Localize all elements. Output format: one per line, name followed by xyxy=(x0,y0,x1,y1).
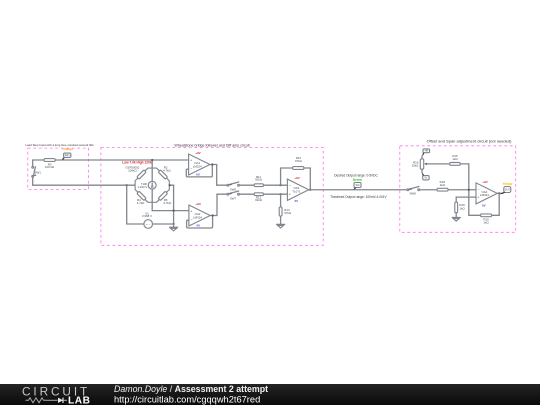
svg-text:+: + xyxy=(289,193,291,197)
resistor R19 xyxy=(481,214,492,225)
node junction V1 right xyxy=(173,223,175,225)
wire R13 feedback xyxy=(281,168,293,185)
svg-text:−: − xyxy=(289,184,291,188)
svg-text:LM324: LM324 xyxy=(480,193,489,197)
switch SW1 xyxy=(32,166,41,177)
svg-text:0V: 0V xyxy=(196,224,200,228)
svg-text:4.7kΩ: 4.7kΩ xyxy=(163,168,171,172)
node flag Orange xyxy=(62,147,73,160)
wheatstone bridge octagon xyxy=(135,168,169,202)
node junction OA1 out xyxy=(211,163,213,165)
svg-text:+9V: +9V xyxy=(482,180,487,184)
resistor R13 xyxy=(293,156,304,169)
svg-text:LM324: LM324 xyxy=(193,215,202,219)
wire SW1 to bottom rail xyxy=(32,177,34,185)
svg-text:Theorised Output range: 100mV-: Theorised Output range: 100mV-4.001V xyxy=(330,195,387,199)
resistor R4 (bridge) xyxy=(137,191,146,205)
svg-text:SW7: SW7 xyxy=(230,196,237,200)
wire row2 xyxy=(217,193,227,195)
wire row2 b xyxy=(239,193,254,195)
svg-text:1kΩ: 1kΩ xyxy=(483,221,489,225)
svg-text:10kΩ: 10kΩ xyxy=(412,164,420,168)
svg-text:SW6: SW6 xyxy=(230,187,237,191)
svg-text:LM324: LM324 xyxy=(193,164,202,168)
svg-text:+9V: +9V xyxy=(195,151,200,155)
potentiometer R16 xyxy=(412,156,450,173)
resistor R2 (bridge) xyxy=(158,166,171,180)
switch SW8 xyxy=(407,187,420,196)
node flag Green SIG xyxy=(353,178,362,190)
svg-text:Damon.Doyle / Assessment 2 att: Damon.Doyle / Assessment 2 attempt xyxy=(114,384,268,394)
logo resistor zigzag xyxy=(26,397,47,402)
op-amp OA3 xyxy=(287,176,308,203)
resistor R15 xyxy=(450,154,461,165)
svg-text:0V: 0V xyxy=(482,204,486,208)
wire bridge bottom to OA2 xyxy=(152,210,189,212)
svg-text:0V: 0V xyxy=(196,173,200,177)
node junction crossing xyxy=(173,210,175,212)
svg-text:+ −: + − xyxy=(146,222,151,226)
resistor R5 (bridge) xyxy=(158,191,172,205)
svg-text:−: − xyxy=(191,218,193,222)
op-amp OA4 xyxy=(476,180,497,208)
wire bottom rail xyxy=(33,184,135,186)
svg-text:Low 7.0k High 120k: Low 7.0k High 120k xyxy=(122,160,152,164)
svg-text:Load Step Input with a long ti: Load Step Input with a long time constan… xyxy=(25,143,94,147)
annotation box: Load Step block xyxy=(25,143,94,190)
svg-text:3.968 V: 3.968 V xyxy=(142,214,152,218)
wire OA1 feedback loop xyxy=(186,165,212,177)
svg-text:100kΩ: 100kΩ xyxy=(128,168,137,172)
svg-text:−: − xyxy=(190,167,192,171)
node flag +9v (pot top) xyxy=(422,149,430,156)
wire R18 to OA4 xyxy=(448,189,476,191)
resistor R20 xyxy=(455,202,466,213)
node junction inverting xyxy=(468,189,470,191)
svg-text:Orange: Orange xyxy=(62,147,73,151)
node junction OA3 minus xyxy=(280,184,282,186)
svg-text:+9V: +9V xyxy=(195,202,200,206)
node junction OA4 out xyxy=(498,192,500,194)
svg-text:Yellow: Yellow xyxy=(502,182,512,186)
node junction OA3 out xyxy=(309,189,311,191)
svg-text:1kΩ: 1kΩ xyxy=(440,183,446,187)
wire V1 right leg xyxy=(153,223,174,225)
ground (R20) xyxy=(452,213,460,221)
wire OA1 output xyxy=(210,165,217,186)
node flag Yellow OUT xyxy=(500,182,513,194)
wire bridge right stub xyxy=(169,184,173,186)
svg-text:91kΩ: 91kΩ xyxy=(255,178,263,182)
svg-text:4.7kΩ: 4.7kΩ xyxy=(163,201,171,205)
wire bridge bottom vertical xyxy=(151,189,153,211)
wire OA2 output xyxy=(210,194,217,215)
resistor R18 xyxy=(437,180,448,191)
resistor R12 xyxy=(254,193,263,202)
svg-text:4.7kΩ: 4.7kΩ xyxy=(137,201,145,205)
svg-text:0V: 0V xyxy=(294,199,298,203)
switch SW6 xyxy=(227,182,240,191)
svg-text:91kΩ: 91kΩ xyxy=(255,198,263,202)
wire left vertical to SW1 xyxy=(32,160,34,166)
voltage source V1 xyxy=(142,211,152,228)
wire R19 feedback xyxy=(492,193,500,215)
op-amp OA1 xyxy=(189,151,210,177)
wire OA4 plus leg xyxy=(456,197,476,202)
wire R15 to inverting node xyxy=(460,164,469,215)
svg-text:Green: Green xyxy=(353,178,362,182)
svg-text:97kΩ: 97kΩ xyxy=(284,211,292,215)
resistor R14 xyxy=(279,194,292,216)
svg-text:100 kΩ: 100 kΩ xyxy=(45,165,55,169)
wire OA3 output long xyxy=(309,189,408,191)
wire OA4 output xyxy=(497,192,503,194)
wire row1 c xyxy=(264,184,288,186)
svg-text:LAB: LAB xyxy=(68,395,90,405)
node junction OA2 out xyxy=(212,214,214,216)
node junction left rail xyxy=(126,184,128,186)
svg-text:TL071: TL071 xyxy=(292,190,301,194)
ground (bridge) xyxy=(170,224,178,231)
annotation box: Wheatstone bridge block xyxy=(101,144,323,246)
wire R19 to inverting node xyxy=(469,214,481,216)
svg-text:http://circuitlab.com/cgqqwh2t: http://circuitlab.com/cgqqwh2t67red xyxy=(114,394,260,404)
svg-text:+: + xyxy=(477,196,479,200)
svg-text:OUT: OUT xyxy=(505,188,511,191)
wire V1 left leg xyxy=(127,185,144,224)
svg-text:1kΩ: 1kΩ xyxy=(459,206,465,210)
svg-text:+: + xyxy=(190,209,192,213)
svg-text:Wheatstone bridge follower and: Wheatstone bridge follower and Diff amp … xyxy=(174,144,249,148)
svg-text:1.233 V: 1.233 V xyxy=(137,185,147,189)
wire SW8 to R18 xyxy=(420,189,437,191)
thermistor arm GSF50002 xyxy=(125,166,146,180)
svg-text:+: + xyxy=(190,158,192,162)
svg-text:SIG: SIG xyxy=(355,184,359,187)
node flag 0v (pot bottom) xyxy=(422,173,429,180)
svg-text:1kΩ: 1kΩ xyxy=(452,157,458,161)
wire row2 c xyxy=(264,193,288,195)
wire row1 xyxy=(217,184,227,186)
node junction bridge right xyxy=(169,184,171,186)
svg-text:Offset and Span adjustment cir: Offset and Span adjustment circuit (not … xyxy=(427,139,513,144)
wire OA2 feedback loop xyxy=(187,216,213,229)
svg-text:SW8: SW8 xyxy=(409,191,416,195)
svg-text:SW1: SW1 xyxy=(35,171,42,175)
resistor R3 xyxy=(44,159,55,170)
logo diode xyxy=(47,399,58,401)
footer bar xyxy=(0,384,540,405)
svg-text:SW+: SW+ xyxy=(65,154,71,157)
ground (R14) xyxy=(277,216,285,228)
switch SW7 xyxy=(227,191,240,200)
wire bridge top vertical xyxy=(151,160,153,181)
resistor R11 xyxy=(254,175,263,187)
op-amp OA2 xyxy=(189,202,210,228)
svg-text:−: − xyxy=(477,188,479,192)
wire R13 to output xyxy=(304,168,310,190)
node junction bridge top xyxy=(151,159,153,161)
svg-text:97kΩ: 97kΩ xyxy=(295,159,303,163)
annotation box: Offset and Span block xyxy=(400,139,516,233)
wire row1 b xyxy=(239,184,254,186)
wire right vertical to ground xyxy=(173,185,175,224)
wire top rail xyxy=(33,159,189,161)
node junction OA3 plus xyxy=(280,193,282,195)
thermometer THR xyxy=(137,181,156,189)
svg-text:+9V: +9V xyxy=(294,176,299,180)
